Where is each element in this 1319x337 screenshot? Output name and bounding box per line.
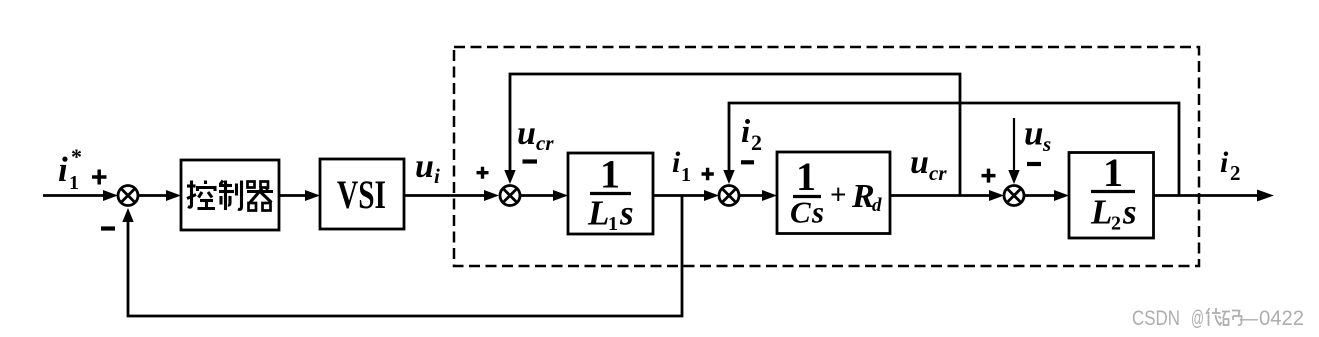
wire: junction 4 to 1/L2s box: [1024, 194, 1055, 197]
wire: output i2: [1154, 194, 1259, 197]
svg-text:1: 1: [608, 213, 618, 235]
fraction bar in 1/Cs: [793, 195, 821, 198]
svg-text:L: L: [1090, 193, 1112, 232]
arrowhead up into junction 1 bottom: [122, 208, 133, 222]
svg-text:2: 2: [1111, 213, 1121, 235]
wire: us disturbance input into junction 4: [1013, 118, 1015, 172]
block: 1/(L1 s) box: [568, 153, 653, 234]
wire: junction 3 to 1/Cs+Rd box: [739, 194, 763, 197]
svg-text:u: u: [1024, 114, 1043, 153]
svg-text:s: s: [1122, 193, 1137, 232]
svg-text:i: i: [672, 146, 681, 179]
minus sign at junction 3: [741, 160, 754, 164]
svg-text:+: +: [830, 179, 847, 211]
wire: 1/L1s to summing junction 3 (signal i1): [653, 194, 705, 197]
svg-text:1: 1: [69, 172, 79, 194]
svg-text:1: 1: [796, 154, 816, 199]
label: 器 (qi) hand-drawn character in controller box: [247, 182, 273, 211]
block: 1/(L2 s) box: [1069, 153, 1154, 239]
wire: 1/Cs+Rd to summing junction 4 (signal ucr): [890, 194, 990, 197]
svg-text:u: u: [415, 148, 434, 185]
label: 控 (kong) hand-drawn character in controller box: [187, 181, 215, 209]
svg-text:cr: cr: [929, 161, 947, 185]
fraction bar in 1/L1s: [590, 192, 631, 195]
svg-text:i: i: [741, 114, 751, 150]
svg-text:s: s: [619, 194, 634, 233]
plus sign at junction 2: [477, 167, 489, 179]
plus sign at junction 1: [92, 170, 107, 185]
svg-text:1: 1: [681, 164, 691, 186]
arrowhead into 1/Cs+Rd: [762, 190, 777, 201]
plus sign at junction 3: [702, 168, 714, 180]
arrowhead into junction 2: [484, 190, 499, 201]
svg-text:VSI: VSI: [337, 172, 386, 217]
svg-text:i: i: [434, 164, 440, 188]
arrowhead down into junction 4 top: [1008, 170, 1019, 184]
wire: input i1* to summing junction 1: [43, 194, 104, 197]
watermark: 码 hand-drawn: [1222, 311, 1242, 326]
arrowhead into 1/L1s: [553, 190, 568, 201]
summing junction 4 (circle with X): [1004, 186, 1024, 206]
svg-text:u: u: [517, 115, 536, 152]
svg-text:s: s: [811, 195, 824, 230]
svg-text:i: i: [1220, 146, 1229, 179]
arrowhead into junction 3: [704, 190, 719, 201]
block: controller (控制器) box: [181, 160, 279, 230]
svg-text:2: 2: [1230, 161, 1241, 185]
arrowhead output i2: [1257, 190, 1274, 202]
arrowhead into junction 1: [103, 190, 118, 201]
block: VSI box: [320, 159, 404, 229]
minus sign at junction 2: [523, 159, 538, 163]
minus sign at junction 4: [1027, 162, 1041, 166]
fraction bar in 1/L2s: [1091, 190, 1135, 193]
arrowhead into 1/L2s: [1054, 190, 1069, 201]
wire: VSI to summing junction 2 (signal ui): [404, 194, 485, 197]
dashed boundary of LCL plant: [454, 47, 1199, 266]
svg-text:2: 2: [751, 130, 762, 155]
arrowhead into VSI: [305, 190, 320, 201]
svg-text:—: —: [1240, 307, 1258, 330]
svg-text:1: 1: [1103, 150, 1123, 195]
arrowhead down into junction 3 top: [723, 170, 734, 184]
wire: controller to VSI: [279, 194, 306, 197]
wire: i2 feedback (tap on output, up, left, down into junction 3): [729, 103, 1179, 196]
svg-text:@: @: [1191, 307, 1204, 330]
wire: ucr feedback (tap before junction 4, up, left, down into junction 2): [510, 74, 960, 196]
label: 制 (zhi) hand-drawn character in controller box: [219, 181, 242, 211]
block: 1/(Cs)+Rd box: [777, 152, 890, 234]
svg-text:0422: 0422: [1259, 307, 1304, 330]
wire: junction 1 to controller box: [138, 194, 167, 197]
svg-text:C: C: [790, 195, 811, 230]
svg-text:*: *: [71, 144, 82, 169]
plus sign at junction 4: [982, 169, 996, 183]
summing junction 1 (circle with X): [118, 186, 138, 206]
wire: junction 2 to 1/L1s box: [520, 194, 554, 197]
minus sign at junction 1: [101, 226, 115, 230]
svg-text:CSDN: CSDN: [1132, 307, 1180, 330]
svg-text:i: i: [58, 150, 68, 189]
summing junction 2 (circle with X): [500, 186, 520, 206]
svg-text:s: s: [1042, 132, 1051, 156]
svg-text:L: L: [587, 194, 609, 233]
summing junction 3 (circle with X): [719, 186, 739, 206]
svg-text:u: u: [910, 144, 929, 181]
svg-text:d: d: [872, 195, 882, 216]
arrowhead down into junction 2 top: [504, 170, 515, 184]
watermark: 代 hand-drawn: [1206, 308, 1222, 326]
arrowhead into controller: [166, 190, 181, 201]
wire: i1 feedback (tap after 1/L1s, down, left, up into junction 1): [128, 196, 682, 317]
svg-text:cr: cr: [536, 131, 554, 155]
svg-text:1: 1: [600, 152, 620, 197]
arrowhead into junction 4: [989, 190, 1004, 201]
